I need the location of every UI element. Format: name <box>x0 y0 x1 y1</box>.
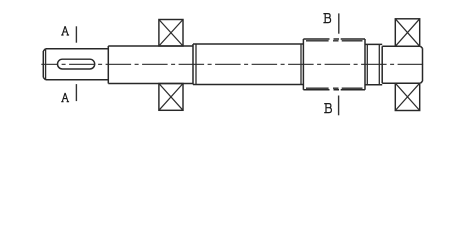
section 2: left bearing journal outline <box>108 46 193 84</box>
section 4 right face <box>364 39 366 90</box>
bearing upper-right cross <box>395 19 419 47</box>
step face section3/section4 (hub left face) <box>302 39 304 90</box>
bearing lower-left cross <box>159 84 183 111</box>
section 1 end chamfer line <box>45 49 47 80</box>
bearing lower-left box <box>159 84 183 111</box>
section label B (top) <box>323 14 330 23</box>
section 4 top chamfer line with keyway break <box>306 40 363 42</box>
section 5: collar outline <box>365 44 382 84</box>
section label A (top) <box>61 26 69 35</box>
section 6: right bearing journal outline with chamfered end <box>382 46 422 83</box>
section 4 top outline with keyway break <box>303 38 365 40</box>
section 1: left stub outline with chamfered end <box>43 49 108 80</box>
section label B (bottom) <box>324 104 331 113</box>
section 3: middle shaft outline <box>193 44 303 85</box>
step face section2/section3 <box>192 44 194 85</box>
section B cutting-plane tick (bottom) <box>338 96 340 116</box>
keyway slot (stadium) on section 1 <box>58 59 95 69</box>
step face section5/section6 <box>381 46 383 83</box>
section 4 bottom outline with keyway break <box>303 89 365 91</box>
bearing upper-right box <box>395 19 419 47</box>
section A cutting-plane tick (bottom) <box>75 84 77 101</box>
section label A (bottom) <box>61 93 69 102</box>
bearing upper-left box <box>159 20 183 47</box>
section 3 right chamfer line <box>300 44 302 84</box>
section A cutting-plane tick (top) <box>75 26 77 42</box>
section 3 left chamfer line <box>195 44 197 84</box>
section B cutting-plane tick (top) <box>338 13 340 33</box>
bearing upper-left cross <box>159 20 183 47</box>
section 5 left chamfer line <box>366 44 368 84</box>
section 5 right chamfer line <box>378 44 380 84</box>
centerline (shaft axis, dash-dot) <box>41 63 425 65</box>
bearing lower-right box <box>395 83 419 110</box>
bearing lower-right cross <box>395 83 419 110</box>
section 4 bottom chamfer line with keyway break <box>306 87 363 89</box>
step face section1/section2 <box>107 46 109 84</box>
